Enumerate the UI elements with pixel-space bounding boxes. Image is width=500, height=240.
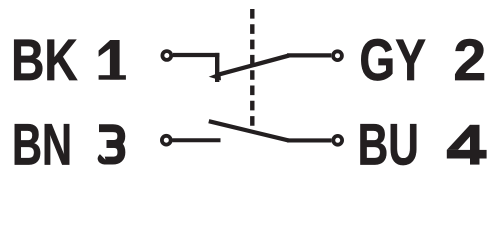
- pin number 1: [99, 40, 126, 80]
- svg-text:2: 2: [453, 28, 486, 92]
- terminal circle pin 1: [162, 51, 171, 60]
- svg-text:BK: BK: [11, 28, 78, 94]
- wire vertical drop at contact 1: [215, 53, 219, 82]
- terminal circle pin 4: [333, 136, 342, 145]
- pin number 4: [447, 125, 487, 165]
- actuator dashed link: [250, 9, 254, 127]
- svg-text:BU: BU: [358, 112, 419, 176]
- switch blade NO (bottom): [209, 121, 289, 140]
- switch blade NC (top): [220, 56, 290, 75]
- arrowhead on NC blade: [209, 72, 221, 80]
- wire contact to pin 4: [287, 138, 331, 142]
- svg-text:GY: GY: [359, 28, 426, 94]
- svg-text:BN: BN: [12, 112, 72, 176]
- terminal circle pin 2: [333, 51, 342, 60]
- terminal circle pin 3: [162, 136, 171, 145]
- wire contact to pin 2: [287, 53, 331, 57]
- wire pin1 to contact: [173, 53, 220, 57]
- pin number 3: [99, 128, 121, 160]
- wire pin3 stub: [172, 138, 220, 142]
